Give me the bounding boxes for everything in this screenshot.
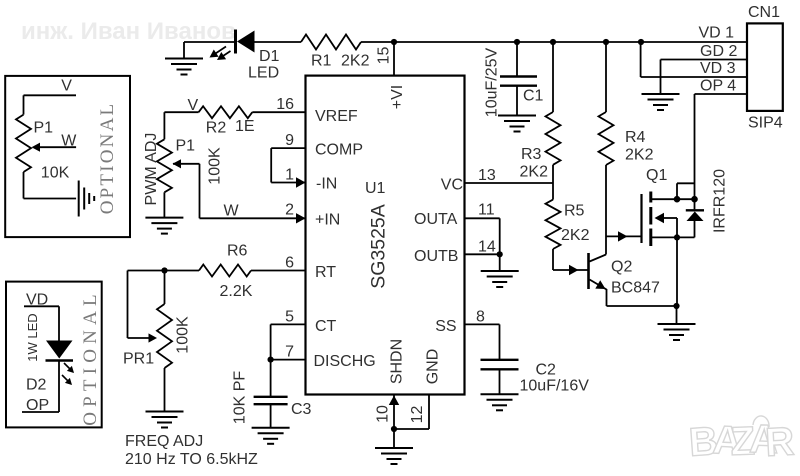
- svg-text:VD 3: VD 3: [700, 60, 736, 77]
- svg-text:5: 5: [285, 308, 294, 325]
- svg-text:10K PF: 10K PF: [232, 371, 249, 425]
- svg-text:2K2: 2K2: [561, 227, 590, 244]
- svg-text:2: 2: [285, 201, 294, 218]
- svg-text:C1: C1: [523, 88, 544, 105]
- svg-text:Q1: Q1: [646, 167, 667, 184]
- svg-text:W: W: [224, 203, 240, 220]
- svg-text:100K: 100K: [207, 147, 224, 185]
- svg-text:C3: C3: [291, 401, 312, 418]
- svg-text:13: 13: [478, 167, 496, 184]
- svg-text:2K2: 2K2: [341, 53, 370, 70]
- svg-text:7: 7: [285, 344, 294, 361]
- svg-text:OP: OP: [26, 397, 49, 414]
- svg-text:OP 4: OP 4: [700, 77, 736, 94]
- svg-text:R1: R1: [311, 53, 332, 70]
- svg-text:210 Hz TO 6.5kHZ: 210 Hz TO 6.5kHZ: [125, 451, 258, 468]
- svg-text:SHDN: SHDN: [389, 339, 406, 384]
- svg-text:GD 2: GD 2: [700, 43, 737, 60]
- svg-text:Q2: Q2: [611, 259, 632, 276]
- svg-text:LED: LED: [248, 65, 279, 82]
- svg-text:6: 6: [285, 255, 294, 272]
- svg-text:C2: C2: [536, 362, 557, 379]
- svg-text:R6: R6: [227, 243, 248, 260]
- svg-text:-IN: -IN: [316, 176, 337, 193]
- svg-text:16: 16: [276, 96, 294, 113]
- svg-text:R4: R4: [625, 129, 646, 146]
- svg-text:COMP: COMP: [315, 142, 363, 159]
- svg-text:SIP4: SIP4: [748, 115, 783, 132]
- svg-text:инж. Иван Иванов: инж. Иван Иванов: [21, 18, 236, 45]
- svg-text:10uF/16V: 10uF/16V: [520, 378, 590, 395]
- svg-text:+VI: +VI: [389, 85, 406, 109]
- svg-text:BC847: BC847: [611, 280, 660, 297]
- svg-text:10: 10: [375, 405, 392, 423]
- svg-text:IRFR120: IRFR120: [712, 169, 729, 233]
- svg-text:12: 12: [409, 406, 426, 424]
- svg-text:DISCHG: DISCHG: [314, 353, 376, 370]
- svg-text:P1: P1: [176, 138, 196, 155]
- svg-text:P1: P1: [34, 120, 54, 137]
- svg-text:OPTIONAL: OPTIONAL: [80, 289, 101, 426]
- svg-text:OUTB: OUTB: [414, 248, 458, 265]
- svg-text:D2: D2: [26, 377, 47, 394]
- svg-text:R5: R5: [564, 203, 585, 220]
- svg-text:2K2: 2K2: [520, 164, 549, 181]
- svg-text:VD 1: VD 1: [699, 24, 735, 41]
- svg-text:CN1: CN1: [748, 4, 780, 21]
- svg-text:8: 8: [476, 308, 485, 325]
- svg-text:W: W: [61, 133, 77, 150]
- svg-text:PWM ADJ: PWM ADJ: [143, 133, 160, 206]
- svg-text:14: 14: [478, 238, 496, 255]
- svg-text:GND: GND: [425, 349, 442, 385]
- svg-text:R2: R2: [206, 120, 227, 137]
- svg-text:V: V: [188, 97, 199, 114]
- svg-text:R3: R3: [521, 146, 542, 163]
- svg-text:1E: 1E: [235, 118, 255, 135]
- svg-text:VC: VC: [441, 177, 463, 194]
- svg-text:10K: 10K: [41, 165, 70, 182]
- svg-text:V: V: [61, 77, 72, 94]
- svg-text:2.2K: 2.2K: [220, 283, 253, 300]
- svg-text:FREQ ADJ: FREQ ADJ: [125, 433, 203, 450]
- svg-text:11: 11: [478, 202, 495, 219]
- svg-text:OUTA: OUTA: [414, 211, 458, 228]
- svg-text:U1: U1: [365, 180, 386, 197]
- svg-text:1: 1: [285, 167, 294, 184]
- svg-text:VREF: VREF: [315, 108, 358, 125]
- svg-text:+IN: +IN: [315, 211, 340, 228]
- svg-text:CT: CT: [315, 318, 337, 335]
- svg-text:10uF/25V: 10uF/25V: [484, 47, 501, 117]
- svg-text:SG3525A: SG3525A: [368, 204, 390, 289]
- svg-text:1W LED: 1W LED: [25, 313, 40, 361]
- svg-text:2K2: 2K2: [625, 147, 654, 164]
- svg-text:SS: SS: [435, 318, 456, 335]
- svg-text:100K: 100K: [175, 316, 192, 354]
- svg-text:PR1: PR1: [123, 351, 154, 368]
- svg-text:RT: RT: [315, 264, 336, 281]
- svg-text:OPTIONAL: OPTIONAL: [97, 102, 118, 215]
- svg-text:15: 15: [376, 47, 393, 65]
- svg-text:9: 9: [285, 132, 294, 149]
- svg-text:D1: D1: [259, 48, 280, 65]
